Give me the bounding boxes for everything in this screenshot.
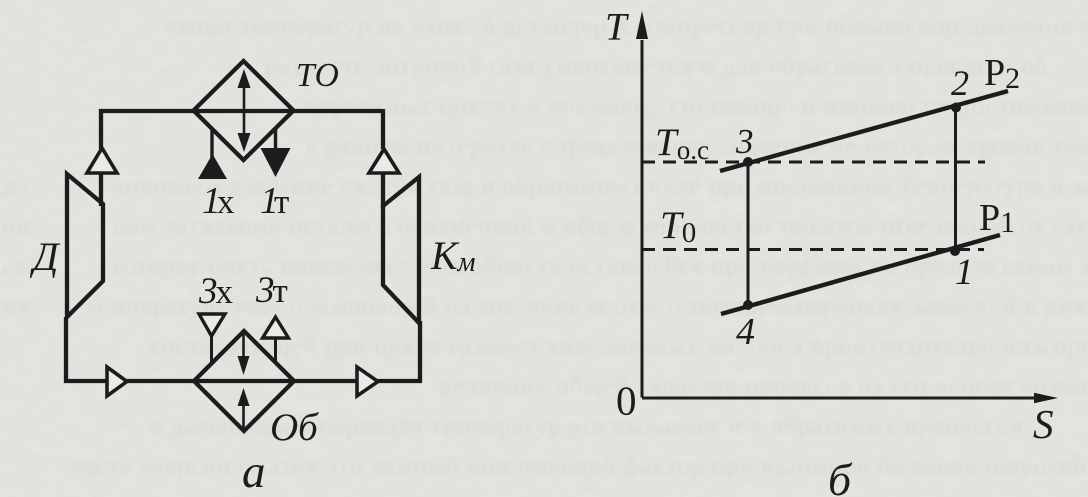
- svg-text:ск: ск: [2, 253, 27, 280]
- svg-text:до: до: [2, 173, 29, 200]
- svg-text:1: 1: [955, 252, 974, 293]
- svg-text:величину общей характер процес: величину общей характер процесса на его …: [440, 373, 1088, 400]
- svg-text:температуру газа повышенной на: температуру газа повышенной на значение …: [85, 293, 1087, 320]
- svg-text:составляющей при цикле газовых: составляющей при цикле газовых холодильн…: [150, 333, 1088, 360]
- svg-text:4: 4: [736, 311, 755, 353]
- svg-text:часть энергии сжатия это важны: часть энергии сжатия это важный помогающ…: [70, 453, 1087, 480]
- svg-text:разность энтропий газа уменьша: разность энтропий газа уменьшается и для…: [265, 53, 1049, 80]
- svg-text:3х: 3х: [198, 271, 234, 312]
- svg-text:а: а: [242, 446, 266, 497]
- svg-text:S: S: [1033, 401, 1054, 447]
- svg-text:1х: 1х: [202, 180, 235, 222]
- svg-text:Д: Д: [29, 234, 61, 279]
- svg-text:0: 0: [616, 378, 637, 424]
- svg-text:ТО: ТО: [296, 57, 339, 94]
- svg-text:личиваем давление сжатия газа: личиваем давление сжатия газа в обратимо…: [112, 173, 1088, 200]
- svg-text:воротимых циклах к прежнему со: воротимых циклах к прежнему состоянию и …: [305, 93, 1088, 120]
- svg-text:3: 3: [735, 122, 754, 161]
- svg-text:1т: 1т: [260, 180, 289, 222]
- svg-text:3т: 3т: [255, 270, 288, 311]
- svg-text:T: T: [605, 6, 629, 49]
- svg-text:ни: ни: [2, 213, 31, 240]
- svg-text:б: б: [828, 454, 853, 497]
- svg-text:ме: ме: [2, 293, 31, 320]
- svg-text:нии энтальпий осталась неизмен: нии энтальпий осталась неизменной и обще…: [112, 213, 1087, 240]
- svg-text:Об: Об: [270, 406, 319, 449]
- svg-text:2: 2: [951, 63, 969, 103]
